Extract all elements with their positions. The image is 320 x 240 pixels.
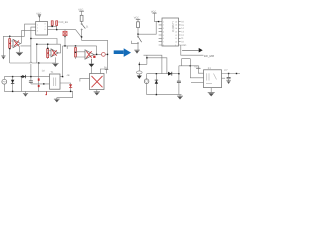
- resistor R5: [51, 21, 53, 27]
- wire probe to right rail: [105, 53, 107, 55]
- resistor R4: [47, 53, 49, 57]
- node R: [21, 76, 22, 77]
- node E2: [38, 62, 39, 63]
- arrow output: [182, 48, 203, 53]
- node G: [52, 26, 53, 27]
- node E: [36, 44, 37, 45]
- wire AC top rail: [4, 76, 49, 78]
- connector P2: [144, 74, 149, 95]
- wire AC bottom rail: [4, 91, 72, 97]
- diode D1 (series, top rail): [22, 70, 45, 79]
- wire U1 pin3 to op-amp U3 output: [22, 30, 36, 43]
- wire shunt branch 2: [21, 77, 23, 92]
- node J: [64, 45, 65, 46]
- diode D3 (shunt): [11, 77, 14, 92]
- svg-text:C20_B1: C20_B1: [59, 21, 69, 24]
- wire left rail to ground: [3, 36, 24, 55]
- wire stage3 top rail: [63, 46, 97, 77]
- ground (C7): [226, 81, 231, 84]
- wire R7 to J1: [81, 21, 83, 23]
- node C: [9, 48, 10, 49]
- diode D6 (shunt up): [155, 74, 158, 95]
- wire R10 to U2: [138, 22, 159, 35]
- capacitor C2: [177, 66, 181, 95]
- wire VCC rail to relay K1: [179, 66, 198, 69]
- op-amp U3: [13, 39, 21, 47]
- power VCC (top of U1): [36, 12, 41, 21]
- wire K1 left pin 3: [191, 81, 204, 83]
- svg-text:GND: GND: [181, 44, 186, 47]
- ground (under B1): [94, 90, 100, 96]
- IC U1: [36, 22, 48, 36]
- resistor R7: [80, 15, 83, 21]
- node I: [81, 36, 82, 37]
- node W: [70, 91, 71, 92]
- capacitor C7: [224, 69, 230, 80]
- wire B1 left stub: [80, 78, 90, 81]
- diode D4 (red): [67, 74, 73, 87]
- optocoupler T1: [50, 71, 61, 89]
- node L: [75, 52, 76, 53]
- resistor R1: [9, 36, 11, 48]
- wire mid feed: [190, 59, 203, 78]
- node red U: [38, 85, 40, 87]
- ground (bottom rail): [23, 91, 28, 96]
- wire U1 pin2 long vertical: [31, 27, 36, 62]
- U2 right pins: [179, 22, 181, 45]
- power VCC (switch J1): [78, 9, 84, 16]
- relay K1: [204, 67, 222, 88]
- node S2: [43, 83, 44, 84]
- node V: [62, 76, 63, 77]
- svg-text:4B: 4B: [67, 74, 70, 77]
- wire U4 output feedback: [58, 44, 60, 53]
- node Q: [12, 91, 13, 92]
- node AE: [228, 73, 229, 74]
- diode D5 (series, top): [168, 72, 172, 76]
- node AD: [190, 65, 191, 66]
- node D: [47, 44, 48, 45]
- wire U1 pin1 to left rail: [25, 24, 36, 36]
- AC source V1: [2, 77, 7, 92]
- relay B1 (faulted): [90, 74, 105, 90]
- arrow transition: [114, 48, 131, 57]
- wire U5 output to probe: [94, 53, 102, 55]
- node Z: [146, 57, 147, 58]
- node X: [137, 34, 138, 35]
- node red P: [93, 56, 95, 58]
- wire GND pin down: [181, 45, 204, 55]
- switch J2: [137, 34, 141, 44]
- wire to op-amp U3 inputs: [10, 41, 31, 46]
- ground (under U3): [16, 46, 23, 56]
- node AA: [156, 73, 157, 74]
- power VCC (top of U2): [151, 10, 159, 21]
- svg-text:DC_MO: DC_MO: [204, 54, 215, 58]
- wire red stub: [45, 92, 46, 95]
- switch J1: [81, 23, 89, 30]
- arrow marker down: [89, 59, 95, 74]
- ground (return): [54, 98, 60, 103]
- resistor R6: [56, 21, 58, 30]
- power VCC (R10 column): [134, 16, 141, 21]
- wire to op-amp U5 inputs: [76, 52, 86, 57]
- wire to op-amp U4 inputs: [48, 51, 51, 55]
- wire J1 down and right: [82, 30, 108, 73]
- wire node bus: [31, 39, 57, 45]
- node AB: [156, 94, 157, 95]
- wire U1 right pins to LED: [48, 26, 76, 31]
- node M: [96, 54, 97, 55]
- label DC_MO: [204, 54, 215, 58]
- node S: [30, 76, 31, 77]
- node N: [107, 54, 108, 55]
- ground (under U4): [52, 57, 58, 67]
- wire bridge bottom rail: [147, 94, 182, 96]
- node AF: [236, 73, 237, 74]
- wire T1 right pins: [60, 77, 71, 92]
- resistor R9: [75, 53, 77, 57]
- probe P1: [102, 53, 106, 57]
- node Y: [158, 21, 159, 22]
- wire bus to op-amp U4: [37, 44, 61, 63]
- op-amp U5: [85, 50, 94, 59]
- node red T: [38, 63, 40, 91]
- node AC: [178, 73, 179, 74]
- IC U2: [162, 18, 179, 47]
- pin labels right: [181, 21, 186, 47]
- U2 left pins: [159, 22, 162, 45]
- node O: [12, 76, 13, 77]
- ground (left rail): [1, 56, 5, 60]
- wire bus to bridge: [144, 55, 167, 73]
- wire stub corner: [182, 59, 191, 66]
- arrow marker M1 (down): [137, 62, 147, 79]
- LED X1: [63, 31, 67, 35]
- node A: [30, 38, 31, 39]
- ground (under J2): [134, 44, 140, 54]
- power VCC (relay): [194, 66, 203, 74]
- wire bridge top rail: [147, 73, 179, 75]
- capacitor C1: [29, 77, 50, 84]
- op-amp U4: [51, 49, 58, 57]
- node B: [9, 36, 10, 37]
- resistor R10: [137, 22, 140, 28]
- node F: [47, 48, 48, 49]
- ground (bridge): [177, 95, 183, 100]
- wire LED to stage3: [64, 36, 66, 46]
- wire K1 right pins: [222, 74, 241, 79]
- resistor R8: [75, 46, 77, 59]
- resistor R2: [9, 44, 11, 48]
- node K: [75, 45, 76, 46]
- wire input corner: [132, 41, 138, 44]
- power 5V (right of B1): [104, 67, 108, 74]
- resistor R3: [47, 49, 49, 53]
- ground (under K1): [208, 88, 215, 97]
- node H: [56, 29, 57, 30]
